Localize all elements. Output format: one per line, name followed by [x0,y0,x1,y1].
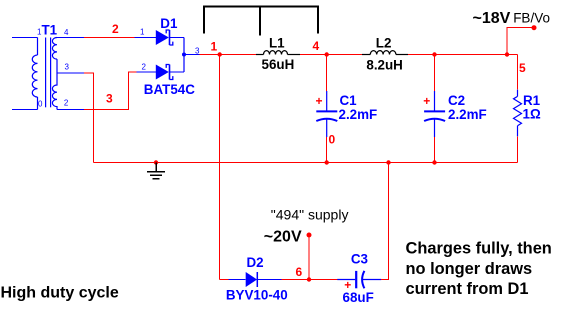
svg-text:current from D1: current from D1 [406,280,529,298]
wire net 1 (D1 out to L1) [184,54,256,56]
io pin ~18V [532,25,537,30]
capacitor C1 [316,91,337,137]
wire C3 to riser [381,163,388,280]
junction node 4 [325,52,329,56]
svg-text:C3: C3 [351,252,368,267]
wire T1 primary bottom stub [12,109,38,111]
wire C1 to ground rail [326,137,328,163]
junction (ground / rail) [154,160,158,164]
junction node 1 [218,52,222,56]
svg-text:L1: L1 [269,36,285,51]
svg-text:T1: T1 [42,22,58,37]
junction (C3 riser / rail) [386,160,390,164]
wire net 3 (T1 pin2 up to D1 pin2) [57,72,156,110]
wire C2 to ground rail [434,137,436,163]
diode D2 [246,272,282,287]
inductor L1 [256,51,300,55]
wire T1 primary top stub [12,37,38,39]
wire ground rail [94,162,518,164]
junction (C2 / rail) [432,160,436,164]
svg-text:2.2mF: 2.2mF [339,107,378,122]
svg-text:R1: R1 [523,93,541,108]
svg-text:1: 1 [37,27,42,36]
wire net 2 (T1 pin4 to D1 pin1) [57,37,156,39]
wire D2 anode feed [220,279,246,281]
resistor R1 [514,90,522,137]
wire node4 down to C1 [326,55,328,92]
wire node 4 (L1 to L2) [300,54,362,56]
svg-text:3: 3 [106,92,113,106]
measurement bracket [204,7,318,36]
svg-text:56uH: 56uH [262,57,295,72]
capacitor C3 [337,271,381,288]
wire net 1 vertical (node1 down to D2) [219,55,221,280]
svg-text:5: 5 [519,61,526,75]
svg-text:BAT54C: BAT54C [144,82,195,97]
annotation: charges note [406,240,552,299]
svg-text:~18V: ~18V [473,10,511,27]
svg-text:8.2uH: 8.2uH [366,57,402,72]
io pin ~20V [307,233,312,238]
svg-text:68uF: 68uF [343,290,374,305]
svg-text:4: 4 [64,28,69,37]
svg-text:FB/Vo: FB/Vo [513,11,550,26]
ground [147,163,165,179]
svg-text:2: 2 [112,22,119,36]
inductor L2 [362,51,408,55]
junction (L2 / C2 node) [432,52,436,56]
svg-text:D1: D1 [160,16,178,31]
junction node 6 [307,277,311,281]
svg-text:2.2mF: 2.2mF [448,107,487,122]
junction (C1 / rail) [325,160,329,164]
svg-text:6: 6 [296,265,303,279]
wire node5 to R1 [517,55,519,90]
wire ~20V stub [308,235,310,280]
svg-text:no longer draws: no longer draws [406,260,533,278]
svg-text:~20V: ~20V [264,228,302,245]
transformer T1 [32,38,57,110]
svg-text:High duty cycle: High duty cycle [1,285,119,302]
svg-text:1Ω: 1Ω [523,107,541,122]
capacitor C2 [424,91,445,137]
diode D1 (dual Schottky, common cathode) [156,30,186,80]
svg-text:BYV10-40: BYV10-40 [226,288,288,303]
junction (output node 5) [505,52,509,56]
svg-text:3: 3 [65,63,70,72]
wire C2 branch [434,55,436,92]
svg-text:1: 1 [140,28,145,37]
wire R1 to ground rail [517,136,519,162]
svg-text:+: + [316,94,323,108]
svg-text:2: 2 [64,99,69,108]
svg-text:2: 2 [142,63,147,72]
wire L2 to node 5 corner [408,54,518,56]
wire ground net (T1 pin3 tap to rail) [57,73,94,163]
svg-text:0: 0 [329,133,336,147]
svg-text:D2: D2 [247,255,264,270]
wire net 6 [282,279,338,281]
svg-text:Charges fully, then: Charges fully, then [406,240,552,258]
svg-text:1: 1 [211,40,218,54]
svg-text:0: 0 [38,100,43,109]
wire FB/Vo stub [507,28,534,55]
svg-text:L2: L2 [376,36,392,51]
svg-text:4: 4 [313,39,320,53]
svg-text:"494" supply: "494" supply [271,207,349,223]
svg-text:+: + [423,94,430,108]
